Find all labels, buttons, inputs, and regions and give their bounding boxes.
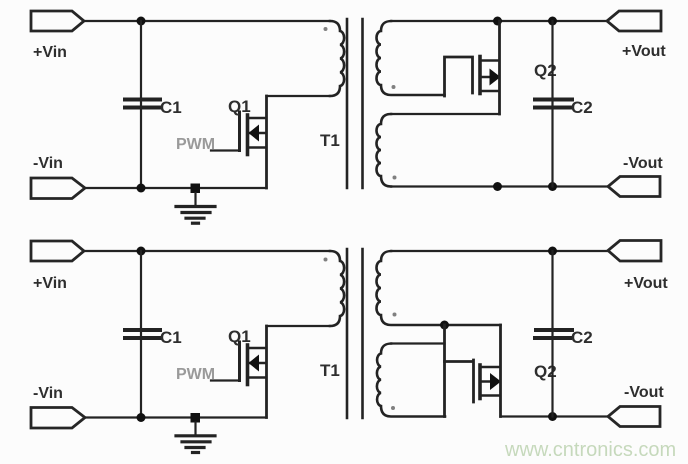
node C2 top junction (bottom ckt): [548, 247, 557, 256]
svg-text:PWM: PWM: [176, 136, 215, 153]
label C1 (bottom): [160, 328, 182, 347]
label C2 (top): [571, 98, 593, 117]
transformer T1 primary winding (top): [330, 21, 344, 96]
wire top input rail: [84, 20, 330, 22]
node C2 bottom junction: [548, 182, 557, 191]
wire Q2 gate lead (top): [445, 57, 473, 96]
wire secondary bottom rail: [391, 185, 608, 187]
transistor Q2 (bottom): [480, 365, 501, 399]
transformer T1 secondary winding 1 (top): [377, 21, 445, 95]
wire C1 lower lead (bottom ckt): [140, 329, 142, 418]
wire PWM to Q1 gate (bottom ckt): [211, 379, 238, 381]
watermark www.cntronics.com: [504, 439, 676, 461]
label T1 (bottom): [320, 361, 340, 380]
transformer T1 primary winding (bottom): [330, 251, 344, 326]
wire bottom input rail (bottom ckt): [85, 416, 267, 418]
label Q1 (top): [228, 97, 251, 116]
svg-text:C1: C1: [160, 328, 182, 347]
phase dot primary (top): [324, 27, 328, 31]
svg-text:+Vin: +Vin: [33, 44, 67, 61]
svg-text:+Vin: +Vin: [33, 275, 67, 292]
label -Vout (top): [623, 155, 663, 172]
node secondary bottom rail junction: [493, 182, 502, 191]
label -Vin (bottom): [33, 385, 63, 402]
connector -Vin (top): [31, 178, 85, 199]
label T1 (top): [320, 131, 340, 150]
transformer T1 secondary winding 2 (bottom): [377, 344, 445, 417]
connector -Vout (bottom): [608, 407, 660, 427]
ground (top): [176, 193, 215, 223]
wire secondary bottom rail (bottom ckt): [501, 415, 609, 417]
wire bottom input rail: [85, 187, 267, 189]
capacitor C1 (top): [125, 100, 160, 108]
node C1 bottom junction: [137, 184, 146, 193]
wire secondary top rail (bottom ckt): [391, 250, 608, 252]
phase dot secondary 2 (bottom): [391, 406, 395, 410]
wire top input rail (bottom ckt): [84, 250, 330, 252]
capacitor C2 (top): [535, 100, 572, 108]
svg-text:-Vout: -Vout: [624, 384, 664, 401]
wire C2 lower lead (bottom ckt): [551, 329, 553, 417]
wire secondary 2 top lead (bottom ckt): [391, 342, 445, 344]
transformer T1 secondary winding 2 (top): [377, 114, 392, 187]
label PWM (top): [176, 136, 215, 153]
wire primary bottom lead (bottom ckt): [267, 325, 331, 327]
label +Vin (bottom): [33, 275, 67, 292]
wire primary bottom lead: [267, 95, 331, 97]
svg-text:C2: C2: [571, 328, 593, 347]
transformer T1 core (bottom): [347, 249, 363, 418]
svg-text:Q1: Q1: [228, 97, 251, 116]
wire Q1 drain/source rail: [265, 96, 268, 188]
label +Vin (top): [33, 44, 67, 61]
connector +Vin (bottom): [31, 241, 84, 261]
connector -Vin (bottom): [31, 408, 85, 429]
connector +Vout (top): [607, 11, 661, 31]
wire PWM to Q1 gate: [211, 149, 238, 151]
node Q2 drain junction: [493, 17, 502, 26]
svg-text:C2: C2: [571, 98, 593, 117]
label +Vout (bottom): [624, 275, 668, 292]
node ground junction (bottom ckt): [191, 413, 201, 423]
phase dot secondary 1 (top): [392, 85, 396, 89]
ground (bottom): [176, 423, 215, 453]
label C1 (top): [160, 98, 182, 117]
transformer T1 secondary winding 1 (bottom): [377, 251, 501, 325]
label PWM (bottom): [176, 366, 215, 383]
wire C1 upper lead: [140, 21, 142, 99]
phase dot primary (bottom): [324, 258, 328, 262]
svg-text:C1: C1: [160, 98, 182, 117]
wire C2 lower lead: [551, 99, 553, 187]
svg-text:-Vin: -Vin: [33, 385, 63, 402]
wire C1 lower lead: [140, 99, 142, 189]
node C2 bottom junction (bottom ckt): [548, 412, 557, 421]
label -Vout (bottom): [624, 384, 664, 401]
node C1 top junction (bottom ckt): [137, 247, 146, 256]
wire Q2 drain-source vertical: [498, 21, 501, 114]
svg-text:www.cntronics.com: www.cntronics.com: [504, 439, 676, 461]
wire Q2 drain vertical (bottom ckt): [499, 325, 502, 417]
label Q2 (bottom): [534, 362, 557, 381]
transistor Q1 (top): [240, 112, 267, 155]
node C1 top junction: [137, 17, 146, 26]
wire C2 upper lead (bottom ckt): [551, 251, 553, 329]
node winding junction (bottom ckt): [440, 321, 449, 330]
phase dot secondary 2 (top): [393, 176, 397, 180]
wire secondary top rail: [391, 20, 607, 22]
transistor Q2 (top): [480, 57, 501, 94]
svg-text:T1: T1: [320, 131, 340, 150]
label Q1 (bottom): [228, 327, 251, 346]
svg-text:+Vout: +Vout: [624, 275, 668, 292]
transistor Q1 (bottom): [240, 342, 267, 385]
svg-text:+Vout: +Vout: [622, 43, 666, 60]
capacitor C2 (bottom): [535, 330, 572, 338]
label -Vin (top): [33, 155, 63, 172]
wire Q1 drain/source rail (bottom ckt): [265, 326, 268, 418]
transformer T1 core (top): [347, 19, 363, 188]
connector +Vin (top): [31, 11, 84, 31]
wire junction vertical (bottom ckt): [443, 325, 446, 417]
svg-text:-Vin: -Vin: [33, 155, 63, 172]
svg-text:-Vout: -Vout: [623, 155, 663, 172]
capacitor C1 (bottom): [125, 330, 160, 338]
label +Vout (top): [622, 43, 666, 60]
wire Q2 gate lead (bottom ckt): [445, 360, 474, 402]
node C1 bottom junction (bottom ckt): [137, 413, 146, 422]
node C2 top junction: [548, 17, 557, 26]
node ground junction: [191, 184, 201, 194]
wire Q2 source to secondary 2: [391, 113, 500, 115]
svg-text:PWM: PWM: [176, 366, 215, 383]
svg-text:T1: T1: [320, 361, 340, 380]
phase dot secondary 1 (bottom): [393, 313, 397, 317]
wire C2 upper lead: [551, 21, 553, 99]
connector +Vout (bottom): [608, 241, 661, 262]
connector -Vout (top): [608, 177, 660, 197]
wire C1 upper lead (bottom ckt): [140, 251, 142, 329]
label Q2 (top): [534, 61, 557, 80]
svg-text:Q1: Q1: [228, 327, 251, 346]
label C2 (bottom): [571, 328, 593, 347]
